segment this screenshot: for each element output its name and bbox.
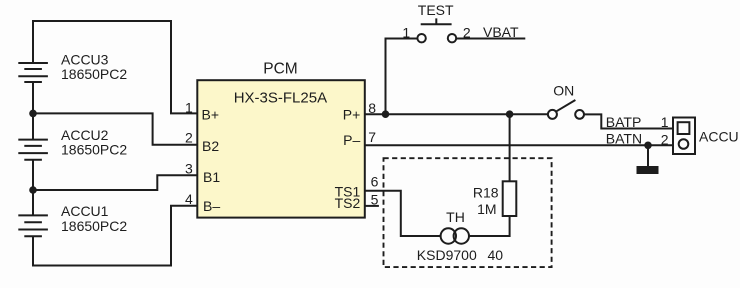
svg-text:ACCU1: ACCU1: [61, 203, 109, 219]
svg-text:1M: 1M: [477, 201, 496, 217]
wire pin 5 TS2 stub: [365, 205, 379, 207]
wire node junction2 to PCM pin 3 (B1): [33, 175, 198, 190]
svg-text:18650PC2: 18650PC2: [61, 142, 127, 158]
node junction dot BATN / ground: [644, 142, 652, 150]
svg-text:KSD9700: KSD9700: [417, 247, 477, 263]
thermal switch TH circle left: [441, 228, 456, 243]
connector ACCU pin 1 square: [678, 122, 690, 134]
node junction dot P+ / R18: [506, 110, 514, 118]
svg-text:ACCU: ACCU: [699, 128, 739, 144]
svg-text:P–: P–: [343, 132, 360, 148]
wire BATN junction to ground: [647, 145, 649, 166]
connector ACCU pin 2 circle: [679, 139, 689, 149]
svg-text:B2: B2: [202, 138, 219, 154]
wire pin 7 P- net to connector BATN: [365, 144, 673, 146]
svg-text:2: 2: [661, 131, 669, 147]
svg-text:B1: B1: [203, 169, 220, 185]
op PCM module body HX-3S-FL25A: [197, 80, 364, 217]
wire TEST pin 2 to VBAT: [456, 38, 525, 40]
svg-text:8: 8: [368, 100, 376, 116]
svg-text:TEST: TEST: [418, 2, 454, 18]
wire TH to resistor R18 bottom: [469, 216, 510, 236]
node junction dot battery ACCU3/ACCU2: [29, 110, 37, 118]
svg-text:B+: B+: [202, 107, 220, 123]
ground symbol bar: [637, 166, 659, 174]
dashed box around TH and R18: [384, 158, 552, 267]
wire ON switch to connector BATP: [584, 114, 673, 128]
svg-text:4: 4: [185, 191, 193, 207]
node junction dot battery ACCU2/ACCU1: [29, 186, 37, 194]
battery ACCU1: [18, 215, 48, 236]
thermal switch TH circle right: [454, 228, 469, 243]
svg-text:ON: ON: [553, 82, 574, 98]
wire ACCU2 minus to ACCU1 plus: [32, 160, 34, 216]
svg-text:B–: B–: [203, 198, 220, 214]
svg-text:6: 6: [371, 174, 379, 190]
wire pin 6 TS1 to thermal switch TH: [365, 191, 441, 236]
node junction dot P+ / TEST: [382, 110, 390, 118]
svg-text:1: 1: [661, 114, 669, 130]
svg-text:40: 40: [488, 247, 504, 263]
svg-text:18650PC2: 18650PC2: [61, 66, 127, 82]
svg-text:BATN: BATN: [606, 131, 642, 147]
switch TEST pushbutton actuator bar: [421, 18, 452, 24]
connector ACCU body: [673, 118, 695, 155]
svg-text:BATP: BATP: [606, 114, 642, 130]
svg-text:TS2: TS2: [335, 195, 361, 211]
svg-text:HX-3S-FL25A: HX-3S-FL25A: [234, 89, 327, 106]
svg-text:TH: TH: [446, 209, 465, 225]
switch ON contact circle right: [575, 110, 584, 119]
switch TEST contact circle pin 1: [417, 34, 425, 42]
svg-text:2: 2: [185, 130, 193, 146]
switch ON lever: [556, 100, 575, 111]
resistor R18 body: [503, 181, 517, 216]
wire R18 top to P+ net junction: [509, 114, 511, 181]
svg-text:3: 3: [185, 161, 193, 177]
switch TEST contact circle pin 2: [448, 34, 456, 42]
svg-text:VBAT: VBAT: [483, 24, 519, 40]
wire pin 8 P+ net to ON switch: [365, 113, 548, 115]
battery ACCU3: [18, 63, 48, 82]
svg-text:7: 7: [368, 129, 376, 145]
battery ACCU2: [18, 140, 48, 160]
svg-text:1: 1: [402, 25, 410, 41]
wire ACCU3 minus to ACCU2 plus: [32, 82, 34, 140]
svg-text:PCM: PCM: [263, 61, 297, 78]
svg-text:R18: R18: [473, 184, 499, 200]
svg-text:2: 2: [463, 24, 471, 40]
svg-text:P+: P+: [343, 107, 361, 123]
svg-text:ACCU3: ACCU3: [61, 51, 109, 67]
svg-text:5: 5: [371, 191, 379, 207]
wire battery stack top to PCM pin 1 (B+): [33, 21, 198, 113]
wire node junction1 to PCM pin 2 (B2): [33, 113, 198, 144]
switch ON contact circle left: [548, 110, 557, 119]
svg-text:1: 1: [185, 100, 193, 116]
wire TEST pin 1 drop to P+ net: [386, 39, 418, 115]
wire ACCU1 minus to PCM pin 4 (B-): [33, 206, 198, 266]
svg-text:18650PC2: 18650PC2: [61, 218, 127, 234]
